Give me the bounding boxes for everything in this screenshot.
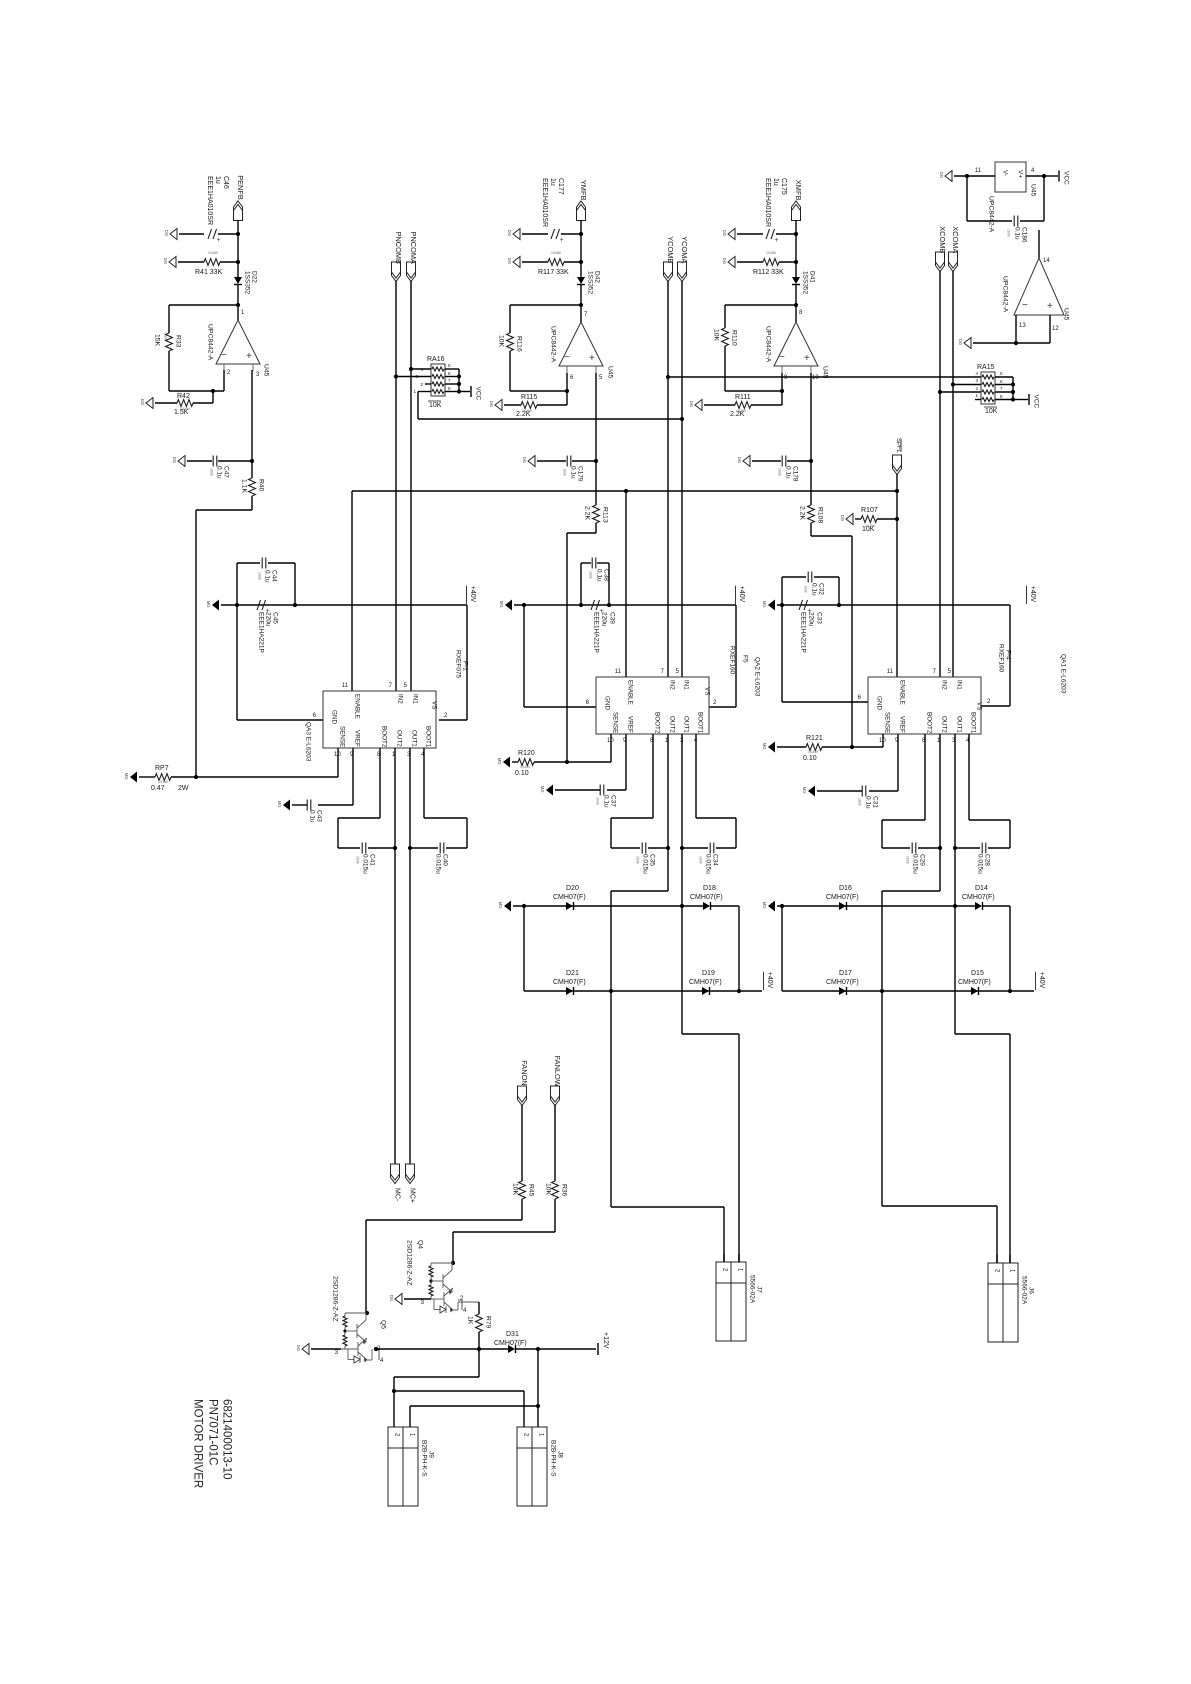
svg-text:GND: GND bbox=[876, 696, 883, 710]
resistor R115 2.2K bbox=[504, 404, 521, 406]
svg-text:R111: R111 bbox=[735, 394, 751, 401]
svg-text:UPC8442-A: UPC8442-A bbox=[550, 326, 557, 363]
power +40V label (D15) bbox=[1010, 990, 1034, 992]
node bbox=[780, 603, 784, 607]
node bbox=[780, 904, 784, 908]
svg-text:C179: C179 bbox=[577, 466, 584, 482]
svg-text:DG: DG bbox=[722, 258, 727, 264]
svg-text:MG: MG bbox=[762, 743, 767, 750]
svg-text:PENFB: PENFB bbox=[236, 175, 245, 200]
fuse F-5 RXEF160 bbox=[735, 605, 737, 707]
ground DG (R42) bbox=[146, 398, 153, 409]
svg-text:GND: GND bbox=[331, 710, 338, 724]
transistor Q4 2SD1286-Z-AZ bbox=[452, 1256, 454, 1263]
resistor R40 1.1K bbox=[251, 461, 253, 478]
node bbox=[680, 846, 684, 850]
diode D21 CMH07(F) bbox=[566, 987, 573, 995]
svg-text:ENABLE: ENABLE bbox=[627, 680, 634, 705]
svg-text:5566-02A: 5566-02A bbox=[1021, 1276, 1028, 1305]
svg-text:D41: D41 bbox=[809, 271, 816, 283]
svg-text:C40: C40 bbox=[442, 854, 449, 866]
svg-text:OUT2: OUT2 bbox=[396, 730, 403, 747]
wire ENABLE QA2 bbox=[625, 491, 627, 677]
wire OUT1 QA1 bbox=[954, 734, 956, 1034]
node bbox=[953, 846, 957, 850]
capacitor C45 220u bbox=[257, 600, 261, 610]
capacitor C38 0.1u bbox=[581, 562, 591, 564]
node bbox=[938, 390, 942, 394]
resistor R117 33K bbox=[522, 261, 548, 263]
fuse F-4 RXEF160 bbox=[1009, 605, 1011, 706]
svg-text:FANON: FANON bbox=[520, 1060, 529, 1085]
capacitor C179 0.1u bbox=[537, 460, 566, 462]
capacitor C29 0.015u bbox=[911, 843, 913, 854]
svg-text:DG: DG bbox=[958, 339, 963, 345]
svg-text:0.1u: 0.1u bbox=[570, 466, 577, 479]
wire feedback loop bbox=[169, 304, 238, 306]
svg-text:MG: MG bbox=[498, 902, 503, 909]
svg-text:1608: 1608 bbox=[562, 468, 566, 476]
svg-text:15K: 15K bbox=[154, 334, 161, 347]
svg-text:0.1u: 0.1u bbox=[1014, 227, 1021, 240]
svg-text:R107: R107 bbox=[861, 507, 878, 514]
capacitor C39 220u bbox=[591, 600, 595, 610]
ground DG (U45 pin11) bbox=[945, 171, 952, 182]
node pin8 bbox=[794, 303, 798, 307]
svg-text:DG: DG bbox=[939, 172, 944, 178]
svg-text:RA16: RA16 bbox=[427, 356, 445, 363]
svg-text:F5: F5 bbox=[742, 655, 749, 663]
node bbox=[579, 260, 583, 264]
ground DG (C177) bbox=[513, 229, 520, 240]
svg-text:DG: DG bbox=[296, 1345, 301, 1351]
power MG arrow (D16) bbox=[768, 901, 775, 912]
wire YCOMB to RA15 bbox=[668, 376, 981, 378]
svg-text:D19: D19 bbox=[702, 970, 715, 977]
resistor R79 1K bbox=[461, 1301, 479, 1303]
svg-text:UPC8442-A: UPC8442-A bbox=[207, 324, 214, 361]
svg-text:XCOMA: XCOMA bbox=[951, 226, 960, 253]
svg-text:C32: C32 bbox=[818, 583, 825, 595]
svg-text:OUT2: OUT2 bbox=[941, 716, 948, 733]
node bbox=[392, 1389, 396, 1393]
svg-text:MG: MG bbox=[124, 773, 129, 780]
svg-text:EEE1HA010SR: EEE1HA010SR bbox=[206, 176, 213, 225]
wire bbox=[954, 175, 995, 177]
node bbox=[624, 489, 628, 493]
svg-text:D22: D22 bbox=[251, 271, 258, 283]
svg-text:B2B-PH-K-S: B2B-PH-K-S bbox=[421, 1440, 428, 1477]
power VCC (U45 pin4) bbox=[1044, 175, 1058, 177]
svg-text:MG: MG bbox=[277, 801, 282, 808]
resistor array RA15 10K bbox=[981, 372, 995, 404]
svg-text:DG: DG bbox=[507, 230, 512, 236]
connector MC+ bbox=[406, 1164, 415, 1184]
diode D19 CMH07(F) bbox=[702, 987, 709, 995]
svg-text:EEE1HA221P: EEE1HA221P bbox=[258, 612, 265, 653]
node bbox=[850, 745, 854, 749]
capacitor C46 bbox=[179, 233, 204, 235]
svg-text:DG: DG bbox=[489, 401, 494, 407]
svg-text:0.47: 0.47 bbox=[151, 785, 165, 792]
svg-text:VCC: VCC bbox=[1063, 171, 1070, 185]
svg-text:10K: 10K bbox=[512, 1183, 519, 1196]
wire feedback bbox=[510, 304, 581, 306]
svg-text:C41: C41 bbox=[369, 854, 376, 866]
svg-text:MG: MG bbox=[497, 758, 502, 765]
svg-text:−: − bbox=[779, 352, 785, 363]
svg-text:6821400013-10: 6821400013-10 bbox=[221, 1399, 233, 1480]
svg-text:1SS352: 1SS352 bbox=[802, 271, 809, 295]
svg-text:R110: R110 bbox=[731, 330, 738, 346]
wire bbox=[1009, 906, 1011, 991]
power +40V label (D19) bbox=[739, 990, 762, 992]
power VCC (RA16) bbox=[459, 391, 470, 393]
svg-text:D15: D15 bbox=[971, 970, 984, 977]
node pin1 bbox=[236, 303, 240, 307]
svg-text:C46: C46 bbox=[222, 176, 229, 189]
resistor RP7 0.47 2W bbox=[139, 776, 155, 778]
svg-text:DG: DG bbox=[164, 230, 169, 236]
svg-text:U45: U45 bbox=[607, 366, 614, 379]
svg-text:−: − bbox=[1022, 300, 1028, 311]
wire IN1 QA3 bbox=[410, 281, 412, 691]
svg-text:ENABLE: ENABLE bbox=[354, 694, 361, 719]
wire bbox=[554, 1199, 556, 1232]
power MG arrow (R121) bbox=[768, 742, 775, 753]
wire J9 pin1 bbox=[410, 1405, 538, 1407]
svg-text:SENSE: SENSE bbox=[339, 726, 346, 747]
svg-text:0.015u: 0.015u bbox=[435, 854, 442, 874]
resistor R36 10K bbox=[552, 1181, 559, 1199]
node bbox=[951, 382, 955, 386]
svg-text:CMH07(F): CMH07(F) bbox=[553, 894, 586, 901]
resistor R120 0.10 bbox=[512, 761, 518, 763]
wire diode row bbox=[513, 905, 682, 907]
svg-text:BOOT2: BOOT2 bbox=[654, 712, 661, 734]
wire VREF QA3 bbox=[352, 748, 354, 805]
wire OUT2 QA1 bbox=[939, 734, 941, 848]
svg-text:EEE1HA010SR: EEE1HA010SR bbox=[764, 178, 771, 227]
svg-text:10K: 10K bbox=[545, 1183, 552, 1196]
wire bbox=[251, 496, 253, 510]
node RA16 pin4 bbox=[409, 367, 413, 371]
resistor R108 2.2K bbox=[808, 505, 815, 523]
wire IN2 QA1 bbox=[939, 271, 941, 677]
svg-text:D31: D31 bbox=[506, 1331, 519, 1338]
node bbox=[965, 174, 969, 178]
node bbox=[1011, 382, 1015, 386]
capacitor C40 0.015u bbox=[439, 843, 441, 854]
wire bbox=[810, 523, 812, 536]
svg-text:2SD1286-Z-AZ: 2SD1286-Z-AZ bbox=[332, 1276, 339, 1322]
svg-text:2W: 2W bbox=[178, 785, 189, 792]
svg-text:R121: R121 bbox=[806, 735, 823, 742]
svg-text:R45: R45 bbox=[528, 1184, 535, 1197]
wire GND pin6 QA3 bbox=[236, 563, 238, 720]
node bbox=[374, 1347, 378, 1351]
svg-text:1u: 1u bbox=[549, 178, 556, 186]
svg-text:B2B-PH-K-S: B2B-PH-K-S bbox=[550, 1440, 557, 1477]
wire bbox=[479, 1348, 508, 1350]
svg-text:1608: 1608 bbox=[803, 585, 807, 593]
svg-text:1/16W: 1/16W bbox=[551, 251, 562, 255]
svg-text:C28: C28 bbox=[984, 854, 991, 866]
svg-text:UPC8442-A: UPC8442-A bbox=[988, 196, 995, 233]
wire +40V rail QA2 bbox=[514, 604, 736, 606]
wire ENABLE net bbox=[352, 490, 897, 492]
svg-text:5566-02A: 5566-02A bbox=[749, 1275, 756, 1304]
svg-text:DG: DG bbox=[840, 515, 845, 521]
capacitor C44 0.1u bbox=[237, 562, 260, 564]
svg-text:D18: D18 bbox=[703, 885, 716, 892]
svg-text:CMH07(F): CMH07(F) bbox=[958, 979, 991, 986]
svg-text:+: + bbox=[560, 237, 564, 244]
svg-text:R40: R40 bbox=[258, 479, 265, 492]
svg-text:0.015u: 0.015u bbox=[977, 854, 984, 874]
svg-text:R108: R108 bbox=[817, 507, 824, 523]
svg-text:11: 11 bbox=[887, 669, 894, 675]
svg-text:0.1u: 0.1u bbox=[811, 583, 818, 596]
diode D16 CMH07(F) bbox=[839, 902, 846, 910]
capacitor C33 220u bbox=[799, 600, 803, 610]
node pin7 bbox=[579, 303, 583, 307]
capacitor C43 0.1u bbox=[306, 800, 308, 811]
wire bbox=[509, 351, 511, 391]
svg-text:DG: DG bbox=[689, 401, 694, 407]
wire BOOT1 QA3 bbox=[423, 748, 425, 818]
power MG arrow (C31) bbox=[808, 786, 815, 797]
svg-text:IN2: IN2 bbox=[397, 694, 404, 704]
connector MC- bbox=[391, 1164, 400, 1184]
wire BOOT2 QA3 bbox=[379, 748, 381, 818]
svg-text:1/16W: 1/16W bbox=[522, 409, 533, 413]
power MG arrow (RP7) bbox=[130, 772, 137, 783]
ground DG (Q4) bbox=[395, 1294, 402, 1305]
svg-text:11: 11 bbox=[342, 683, 349, 689]
node bbox=[938, 846, 942, 850]
node bbox=[895, 489, 899, 493]
svg-text:V-: V- bbox=[1002, 170, 1009, 176]
svg-text:10K: 10K bbox=[429, 402, 442, 409]
svg-text:11: 11 bbox=[975, 168, 982, 174]
svg-text:1608: 1608 bbox=[857, 798, 861, 806]
svg-text:C33: C33 bbox=[816, 612, 823, 624]
connector FANON bbox=[518, 1086, 527, 1106]
svg-text:V+: V+ bbox=[1017, 170, 1024, 178]
svg-text:YCOMB: YCOMB bbox=[666, 236, 675, 263]
node bbox=[235, 603, 239, 607]
svg-text:J9: J9 bbox=[428, 1451, 435, 1458]
wire pin5 bbox=[595, 373, 597, 505]
wire bbox=[580, 234, 582, 262]
svg-text:F-1: F-1 bbox=[462, 661, 469, 671]
svg-text:1/16W: 1/16W bbox=[808, 750, 819, 754]
svg-text:10K: 10K bbox=[498, 335, 505, 348]
diode D31 CMH07(F) bbox=[508, 1345, 515, 1353]
svg-text:D16: D16 bbox=[839, 885, 852, 892]
fuse F-1 RXEF075 bbox=[466, 605, 468, 720]
node bbox=[1014, 341, 1018, 345]
node bbox=[536, 1404, 540, 1408]
svg-text:C178: C178 bbox=[792, 466, 799, 482]
op-amp U45 power box UPC8442-A bbox=[995, 162, 1026, 192]
svg-text:C175: C175 bbox=[780, 178, 787, 195]
wire IN1 QA1 bbox=[952, 271, 954, 677]
svg-text:IN2: IN2 bbox=[669, 680, 676, 690]
svg-text:FANLOW: FANLOW bbox=[553, 1056, 562, 1087]
resistor R113 2.2K bbox=[593, 505, 600, 523]
capacitor C28 0.015u bbox=[981, 843, 983, 854]
svg-text:DG: DG bbox=[172, 457, 177, 463]
wire SENSE QA1 bbox=[882, 734, 884, 747]
resistor R112 33K bbox=[737, 261, 763, 263]
capacitor C34 0.015u bbox=[709, 843, 711, 854]
svg-text:PN7071-01C: PN7071-01C bbox=[207, 1399, 219, 1465]
resistor R121 0.10 bbox=[777, 746, 806, 748]
ground DG (R111) bbox=[695, 400, 702, 411]
diode D20 CMH07(F) bbox=[566, 902, 573, 910]
node PENFB junction bbox=[236, 232, 240, 236]
node bbox=[680, 904, 684, 908]
svg-text:VREF: VREF bbox=[627, 716, 634, 733]
svg-text:2.2K: 2.2K bbox=[799, 506, 806, 520]
driver IC QA3 E-L6203 bbox=[323, 691, 436, 748]
svg-text:DG: DG bbox=[140, 399, 145, 405]
svg-text:SENSE: SENSE bbox=[884, 712, 891, 733]
svg-text:RA15: RA15 bbox=[977, 364, 995, 371]
svg-text:VREF: VREF bbox=[899, 716, 906, 733]
svg-text:XMFB: XMFB bbox=[794, 180, 803, 201]
svg-text:0.015u: 0.015u bbox=[705, 854, 712, 874]
connector J8 B2B-PH-K-S bbox=[517, 1427, 547, 1506]
svg-text:VREF: VREF bbox=[354, 730, 361, 747]
node bbox=[393, 846, 397, 850]
svg-text:11: 11 bbox=[615, 669, 622, 675]
diode D41 1SS352 bbox=[795, 262, 797, 277]
svg-text:OUT1: OUT1 bbox=[683, 716, 690, 733]
svg-text:1608: 1608 bbox=[209, 468, 213, 476]
wire J8 pin1 bbox=[537, 1406, 539, 1427]
wire bbox=[724, 346, 726, 391]
ground DG (Q5) bbox=[302, 1344, 309, 1355]
svg-text:VS: VS bbox=[704, 687, 711, 695]
svg-text:0.015u: 0.015u bbox=[642, 854, 649, 874]
svg-text:220u: 220u bbox=[808, 612, 815, 627]
wire RA16 pin1 to YCOMA bbox=[417, 392, 419, 420]
svg-text:IN2: IN2 bbox=[941, 680, 948, 690]
connector J6 5566-02A bbox=[988, 1263, 1018, 1342]
connector PENFB bbox=[234, 201, 243, 221]
diode D22 1SS352 bbox=[237, 262, 239, 277]
svg-text:YCOMA: YCOMA bbox=[680, 236, 689, 263]
svg-text:CMH07(F): CMH07(F) bbox=[494, 1340, 527, 1347]
svg-text:R33: R33 bbox=[175, 335, 182, 348]
svg-text:YMFB: YMFB bbox=[579, 180, 588, 201]
svg-text:Q4: Q4 bbox=[417, 1240, 424, 1249]
svg-text:EEE1HA221P: EEE1HA221P bbox=[593, 612, 600, 653]
svg-text:1.1K: 1.1K bbox=[241, 479, 248, 493]
node bbox=[953, 904, 957, 908]
wire BOOT1 QA2 bbox=[695, 734, 697, 818]
wire VREF QA2 bbox=[625, 734, 627, 790]
svg-text:C43: C43 bbox=[316, 810, 323, 822]
svg-text:D42: D42 bbox=[594, 271, 601, 283]
svg-text:F-4: F-4 bbox=[1005, 650, 1012, 660]
svg-text:220u: 220u bbox=[265, 612, 272, 627]
svg-text:MG: MG bbox=[499, 601, 504, 608]
svg-text:C47: C47 bbox=[223, 466, 230, 478]
svg-text:C186: C186 bbox=[1021, 227, 1028, 243]
ground DG (R107) bbox=[846, 514, 853, 525]
svg-text:R120: R120 bbox=[518, 750, 535, 757]
wire GND pin6 QA1 bbox=[781, 577, 783, 702]
svg-text:DG: DG bbox=[722, 230, 727, 236]
svg-text:C35: C35 bbox=[649, 854, 656, 866]
resistor R107 10K bbox=[855, 518, 861, 520]
wire pin13 bbox=[1015, 315, 1017, 343]
connector XCOMB bbox=[936, 252, 945, 272]
svg-text:1/16W: 1/16W bbox=[180, 407, 191, 411]
svg-text:+: + bbox=[246, 351, 252, 362]
svg-text:VCC: VCC bbox=[1033, 395, 1040, 409]
svg-text:R42: R42 bbox=[177, 393, 190, 400]
node RA16 pin3 bbox=[394, 374, 398, 378]
svg-text:U45: U45 bbox=[1063, 308, 1070, 321]
power VCC (RA15) bbox=[1013, 399, 1028, 401]
svg-text:CMH07(F): CMH07(F) bbox=[689, 979, 722, 986]
svg-text:1608: 1608 bbox=[163, 333, 167, 341]
svg-text:1608: 1608 bbox=[355, 856, 359, 864]
svg-text:IN1: IN1 bbox=[412, 694, 419, 704]
svg-text:QA2 E-L6203: QA2 E-L6203 bbox=[754, 657, 761, 697]
svg-text:+: + bbox=[1047, 301, 1053, 312]
node bbox=[880, 989, 884, 993]
svg-text:BOOT1: BOOT1 bbox=[697, 712, 704, 734]
connector YCOMB bbox=[664, 262, 673, 282]
connector XCOMA bbox=[949, 252, 958, 272]
svg-text:R41 33K: R41 33K bbox=[195, 269, 223, 276]
svg-text:ENABLE: ENABLE bbox=[899, 680, 906, 705]
diode D18 CMH07(F) bbox=[682, 905, 703, 907]
node bbox=[809, 459, 813, 463]
svg-text:J8: J8 bbox=[557, 1451, 564, 1458]
ground DG (C178) bbox=[743, 456, 750, 467]
diode D42 1SS352 bbox=[580, 262, 582, 277]
svg-text:BOOT2: BOOT2 bbox=[926, 712, 933, 734]
node bbox=[666, 846, 670, 850]
svg-text:1608: 1608 bbox=[257, 572, 261, 580]
node bbox=[1008, 989, 1012, 993]
svg-text:R116: R116 bbox=[516, 336, 523, 352]
svg-text:D17: D17 bbox=[839, 970, 852, 977]
wire VREF QA1 bbox=[897, 734, 899, 791]
svg-text:PNCOMA: PNCOMA bbox=[409, 232, 418, 265]
power MG arrow (QA3 rail) bbox=[212, 600, 219, 611]
wire IN1 QA2 bbox=[681, 281, 683, 677]
wire pin3 bbox=[251, 370, 253, 461]
svg-text:MC-: MC- bbox=[393, 1188, 400, 1202]
svg-text:0.10: 0.10 bbox=[515, 770, 529, 777]
ground DG (C175) bbox=[728, 229, 735, 240]
ground DG (R112) bbox=[728, 257, 735, 268]
node bbox=[737, 989, 741, 993]
ground DG (R41) bbox=[169, 257, 176, 268]
wire bbox=[537, 1349, 539, 1406]
connector SPFL bbox=[893, 455, 902, 475]
svg-text:0.1u: 0.1u bbox=[596, 569, 603, 582]
svg-text:+: + bbox=[775, 237, 779, 244]
